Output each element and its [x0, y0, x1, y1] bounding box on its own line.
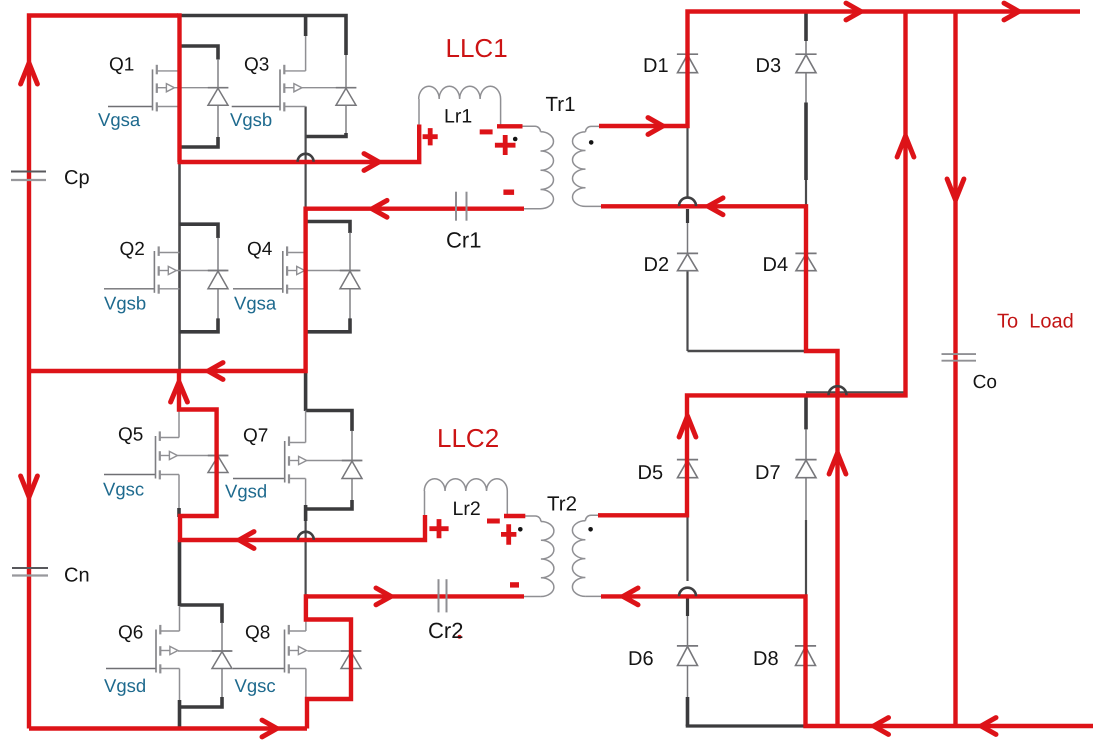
svg-text:Cn: Cn — [64, 565, 90, 587]
arrow: top rail rightward (right arrow) — [1004, 3, 1019, 20]
gate signal label Vgsc for Q8 — [235, 675, 276, 696]
wire: D1-D2 branch thick stub below crossover — [686, 209, 689, 223]
wire: Q1 body diode top bracket — [179, 46, 218, 60]
wire: Q7-Q8 rail to Cr2 node (crosses LLC2 feed) — [305, 521, 307, 596]
polarity dot Tr1 primary — [513, 137, 518, 142]
gate signal label Vgsd for Q6 — [104, 675, 146, 696]
polarity + at Lr1 input — [423, 128, 438, 145]
wire: Q2 body diode bottom bracket — [180, 318, 219, 331]
svg-text:Q6: Q6 — [118, 623, 143, 644]
svg-text:Vgsc: Vgsc — [103, 479, 144, 500]
wire: D3 cathode link — [805, 73, 807, 103]
svg-text:D3: D3 — [756, 55, 782, 77]
label Q5 — [118, 425, 143, 446]
arrow: bottom-right rail leftward (right arrow) — [981, 718, 996, 735]
svg-text:Vgsb: Vgsb — [104, 293, 146, 314]
svg-text:Lr1: Lr1 — [444, 106, 472, 128]
arrow: left bus current down (bottom) — [21, 476, 38, 497]
wire: D5-D6 branch below node (thin dark, crosses return line) — [686, 516, 688, 581]
svg-text:Vgsa: Vgsa — [234, 293, 277, 314]
transistor Q1 (MOSFET) — [108, 65, 180, 112]
wire: Q2 body diode lower thin link — [217, 289, 219, 319]
wire: Q4 body diode lower thin link — [349, 289, 351, 319]
transformer Tr1 secondary winding — [573, 126, 605, 206]
arrow: Cr1 return line leftward — [372, 200, 387, 217]
arrow: rectifier output drop current up — [829, 453, 846, 474]
crossover hop: D1-D2 branch over secondary return — [679, 198, 696, 207]
arrow: load branch downward — [947, 179, 964, 200]
polarity - at Lr1 output — [480, 129, 493, 134]
capacitor Cr2 — [439, 579, 447, 612]
label Q7 — [243, 426, 268, 447]
wire: D3-D4 branch thin segment to Cr1 return node — [805, 180, 807, 223]
label D2 — [644, 254, 670, 276]
wire: Q7 source rail thin segment — [305, 479, 307, 506]
label Co — [973, 372, 997, 393]
wire: Lr2 output link to Tr2 primary (red) — [504, 514, 525, 518]
svg-text:Q7: Q7 — [243, 426, 268, 447]
wire: D7-D8 branch thin dark segment to Cr2 return node — [805, 520, 807, 596]
wire: LLC2 primary return through Cr2 to Q7/Q8 midpoint — [306, 594, 524, 598]
body diode of Q7 — [307, 461, 363, 479]
svg-text:Tr2: Tr2 — [547, 493, 577, 516]
wire: Q7 body diode top bracket — [306, 411, 352, 432]
wire: Q4 body diode bottom bracket — [306, 318, 350, 331]
polarity + at Tr1 primary top — [495, 135, 516, 155]
arrow: Q5 leg current up into mid rail — [171, 382, 188, 402]
wire: Q1 body diode upper thin link — [217, 59, 219, 88]
wire: Q6 source rail thin segment — [179, 669, 181, 702]
title label LLC1 — [446, 33, 508, 63]
wire: Q5 source rail thick segment — [177, 508, 181, 517]
wire: Q7 drain rail thin segment — [305, 411, 307, 443]
svg-text:Q1: Q1 — [109, 55, 134, 76]
wire: Q6 drain rail thin segment — [179, 606, 181, 631]
wire: output riser, rectifier-2 top rail, down through D5 to Tr2 secondary top — [598, 13, 906, 515]
wire: Q3 drain rail to drain stub (thin) — [305, 36, 307, 71]
arrow: D5 leg current up — [679, 416, 696, 437]
wire: bottom-right return rail, up through D8, Tr2 secondary bottom lead — [601, 596, 1093, 726]
svg-text:Vgsc: Vgsc — [235, 675, 276, 696]
crossover hop: Q7-Q8 rail over LLC2 feed — [298, 532, 314, 540]
polarity dot Tr2 secondary — [588, 527, 593, 532]
transistor Q4 (MOSFET) — [233, 246, 306, 293]
body diode of Q2 — [177, 271, 229, 289]
wire: load branch with Co (red) — [953, 13, 957, 726]
gate signal label Vgsa for Q4 — [234, 293, 277, 314]
arrow: bottom-left rail rightward — [262, 720, 277, 737]
label Lr1 — [444, 106, 472, 128]
diode D1 — [677, 54, 698, 72]
transformer Tr2 secondary winding — [572, 515, 602, 596]
label To Load — [997, 311, 1074, 333]
arrow: secondary-2 bottom return leftward — [623, 588, 638, 605]
wire: Q1 body diode bottom bracket — [180, 137, 218, 147]
gate signal label Vgsc for Q5 — [103, 479, 144, 500]
wire: D6 leg to bottom rail (thick) — [686, 697, 690, 726]
svg-text:Q8: Q8 — [245, 623, 270, 644]
wire: node A feed to LLC1 (red) with riser to Lr1 — [178, 125, 420, 163]
svg-text:Cr1: Cr1 — [446, 228, 481, 253]
wire: D1-D2 branch below node (thin dark, crosses return line) — [686, 126, 688, 197]
wire: Q3 source to Q4 drain rail (crosses LLC1 feed) — [305, 107, 307, 209]
polarity - at Tr2 primary bottom — [510, 582, 519, 587]
arrow: Cr2 line rightward toward Tr2 — [376, 588, 391, 605]
svg-text:Cr2: Cr2 — [428, 618, 463, 643]
label Lr2 — [453, 498, 481, 520]
wire: Q3 body diode bottom bracket — [306, 133, 346, 137]
label D8 — [753, 648, 779, 670]
body diode of Q6 — [178, 651, 232, 669]
label Tr1 — [546, 93, 576, 116]
svg-text:Co: Co — [973, 372, 997, 393]
wire: Q7 source rail thick segment — [304, 505, 308, 521]
body diode of Q8 — [308, 651, 362, 669]
diode D8 — [795, 646, 816, 666]
svg-text:D1: D1 — [643, 55, 669, 77]
diode D6 — [677, 646, 698, 666]
capacitor Cr1 — [456, 192, 467, 221]
svg-text:Q4: Q4 — [247, 239, 273, 260]
polarity - at Lr2 output — [487, 519, 500, 524]
wire: Q1 body diode lower thin link — [217, 105, 219, 137]
svg-text:Q5: Q5 — [118, 425, 143, 446]
wire: Q6 body diode bottom bracket — [180, 697, 223, 707]
body diode of Q1 — [175, 88, 229, 106]
transistor Q8 (MOSFET) — [233, 625, 306, 674]
label D3 — [756, 55, 782, 77]
label Cn — [64, 565, 90, 587]
wire: D7 anode link — [805, 429, 807, 459]
wire: Tr1 secondary bottom return to D3/D4 node, down through D4, over to rectifier output drop — [601, 206, 838, 726]
crossover hop: Q3-Q4 rail over LLC1 feed — [298, 154, 314, 162]
transistor Q2 (MOSFET) — [104, 246, 180, 293]
wire: Q1 leg rail (red, current down through Q1) — [177, 13, 181, 162]
title label LLC2 — [437, 423, 499, 453]
wire: Q7 drain rail from mid rail (thick) — [304, 371, 308, 411]
svg-text:D8: D8 — [753, 648, 779, 670]
diode D4 — [795, 253, 816, 270]
svg-text:D6: D6 — [628, 648, 654, 670]
wire: Lr1 output link to Tr1 primary (red) — [497, 124, 523, 128]
transistor Q5 (MOSFET) — [104, 431, 179, 479]
wire: Q6 drain rail from LLC2 node (thick) — [178, 540, 182, 606]
label D4 — [763, 254, 789, 276]
wire: Q8 node jog down through Q8 body diode to bottom rail — [306, 594, 351, 728]
capacitor Cn — [12, 568, 48, 576]
label Cr1 — [446, 228, 481, 253]
label Q6 — [118, 623, 143, 644]
arrow: secondary-1 top lead rightward — [648, 118, 663, 135]
wire: bottom-right rail dark segment D6 to D8 — [686, 724, 806, 727]
wire: Q3 drain rail upper (thick) — [304, 14, 308, 36]
wire: Q8 source rail thin segment — [305, 669, 307, 700]
label Cr2 — [428, 618, 463, 643]
svg-text:Vgsb: Vgsb — [230, 109, 272, 130]
wire: bottom-left rail (red) — [29, 726, 307, 730]
label Q2 — [120, 239, 145, 260]
gate signal label Vgsb for Q3 — [230, 109, 272, 130]
svg-text:D4: D4 — [763, 254, 789, 276]
wire: rectifier-1 bottom link D2 to D4 leg — [688, 350, 807, 352]
label D5 — [638, 462, 664, 484]
wire: Q5 drain rail thin segment — [178, 410, 180, 438]
arrow: output riser upward — [897, 136, 914, 157]
transformer Tr2 primary winding — [523, 516, 554, 597]
gate signal label Vgsd for Q7 — [225, 481, 267, 502]
label Tr2 — [547, 493, 577, 516]
svg-text:Q2: Q2 — [120, 239, 145, 260]
svg-text:Q3: Q3 — [244, 55, 269, 76]
svg-text:Vgsa: Vgsa — [98, 109, 141, 130]
arrow: node A feed rightward — [364, 154, 379, 171]
diode D5 — [677, 460, 698, 478]
diode D7 — [795, 460, 816, 478]
wire: D2 anode link — [687, 223, 689, 253]
wire: Q7 body diode bottom bracket — [306, 500, 352, 509]
wire: Q2 body diode top bracket — [180, 224, 219, 238]
label Cp — [64, 167, 90, 189]
arrow: top rail rightward (left arrow) — [846, 3, 861, 20]
svg-text:D2: D2 — [644, 254, 670, 276]
wire: D7 cathode link down — [805, 478, 807, 520]
wire: D6 cathode link — [687, 666, 689, 698]
wire: D3 leg from top rail (thick) — [804, 12, 808, 42]
wire: Q6 body diode upper thin link — [221, 623, 223, 652]
svg-text:Vgsd: Vgsd — [104, 675, 146, 696]
wire: Q3 body diode lower thin link — [345, 105, 347, 133]
svg-text:LLC2: LLC2 — [437, 423, 499, 453]
wire: input rail red segment and left bus (Cp/Cn leg) — [29, 16, 178, 729]
transistor Q3 (MOSFET) — [232, 65, 306, 112]
inductor Lr1 — [419, 86, 501, 127]
capacitor Co — [942, 354, 977, 361]
arrow: LLC2 feed leftward — [239, 532, 254, 549]
svg-text:Tr1: Tr1 — [546, 93, 576, 116]
body diode of Q5 — [178, 456, 229, 473]
svg-text:Lr2: Lr2 — [453, 498, 481, 520]
wire: Q4 body diode upper thin link — [349, 232, 351, 270]
crossover hop: rectifier output drop over output rail — [829, 386, 847, 395]
svg-text:D5: D5 — [638, 462, 664, 484]
svg-text:Cp: Cp — [64, 167, 90, 189]
arrow: mid rail leftward — [208, 363, 223, 380]
wire: Q7 body diode lower thin link — [351, 479, 353, 501]
wire: Tr1 primary return through Cr1 to Q3/Q4 midpoint, down through Q4 to mid rail, back to left bus — [29, 209, 524, 371]
wire: Q5 source rail thin segment — [178, 475, 180, 509]
label Q4 — [247, 239, 273, 260]
transformer Tr1 primary winding — [521, 126, 554, 208]
body diode of Q4 — [305, 271, 361, 289]
crossover hop: D5-D6 branch over secondary-2 return — [679, 588, 696, 596]
body diode of Q3 — [302, 88, 356, 106]
wire: D3-D4 branch thick segment — [804, 103, 808, 181]
gate signal label Vgsb for Q2 — [104, 293, 146, 314]
transistor Q6 (MOSFET) — [106, 625, 180, 674]
polarity - at Tr1 primary bottom — [503, 189, 514, 194]
wire: Q6 body diode lower thin link — [221, 669, 223, 698]
wire: Q2 leg rail from node A down to bottom rail — [178, 162, 181, 371]
svg-text:D7: D7 — [755, 462, 781, 484]
label D1 — [643, 55, 669, 77]
wire: rectifier-2 output dark link to Co branch — [806, 391, 907, 393]
arrow: left bus current up (top) — [21, 63, 38, 84]
wire: Q7 body diode upper thin link — [351, 431, 353, 461]
polarity dot Tr1 secondary — [589, 140, 594, 145]
wire: Tr1 secondary top lead to D1 node, up through D1 to output top rail — [599, 12, 1080, 127]
svg-text:Vgsd: Vgsd — [225, 481, 267, 502]
diode D2 — [677, 253, 698, 270]
wire: D5-D6 branch thick stub below crossover — [686, 597, 689, 616]
red speck after Cr2 label — [458, 635, 462, 639]
wire: D2 cathode link down to rectifier bottom — [686, 271, 688, 351]
wire: top rail dark segment from Q1 leg to Q3 body diode — [178, 16, 346, 56]
svg-text:To Load: To Load — [997, 311, 1074, 333]
label Q3 — [244, 55, 269, 76]
wire: Q5 leg red loop through Q5 body diode down to LLC2 feed — [179, 371, 425, 540]
capacitor Cp — [11, 172, 46, 181]
wire: Q8 drain rail thin segment — [305, 600, 307, 631]
wire: D3 anode link — [805, 41, 807, 54]
wire: Q3 body diode upper thin link — [345, 55, 347, 88]
inductor Lr2 — [424, 479, 507, 518]
wire: D6 anode link — [687, 616, 689, 646]
wire: Q6 source rail thick segment to bottom rail — [178, 700, 182, 729]
arrow: secondary-1 bottom return leftward — [708, 198, 723, 215]
polarity + at Lr2 input — [429, 519, 448, 538]
label D6 — [628, 648, 654, 670]
label Q8 — [245, 623, 270, 644]
transistor Q7 (MOSFET) — [233, 436, 307, 483]
diode D3 — [795, 54, 816, 72]
wire: Q2 body diode upper thin link — [217, 238, 219, 271]
polarity dot Tr2 primary — [518, 527, 523, 532]
svg-text:LLC1: LLC1 — [446, 33, 508, 63]
wire: Q6 body diode top bracket — [180, 605, 223, 623]
wire: D7 leg from output rail (thick) — [804, 395, 808, 429]
polarity + at Tr2 primary top — [501, 524, 516, 545]
label D7 — [755, 462, 781, 484]
wire: Q4 body diode top bracket — [306, 222, 350, 234]
arrow: bottom-right rail leftward (left arrow) — [874, 718, 889, 735]
label Q1 — [109, 55, 134, 76]
gate signal label Vgsa for Q1 — [98, 109, 141, 130]
